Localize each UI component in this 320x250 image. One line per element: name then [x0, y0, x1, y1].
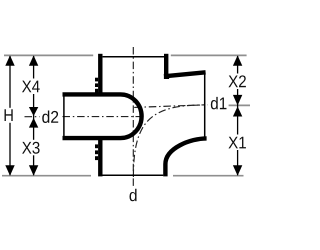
weld ridge lower 1	[95, 144, 98, 148]
weld ridge lower 3	[95, 156, 98, 160]
centerline stub left of d2 label (dash-dot)	[25, 116, 40, 118]
main pipe left wall upper section	[98, 54, 102, 95]
weld ridge upper 1	[95, 78, 98, 82]
extension line bottom-left (gray)	[2, 175, 91, 177]
centerline right branch axis d1 (dash-dot, tilted)	[134, 105, 207, 108]
weld ridge upper 3	[95, 89, 98, 93]
label X4	[21, 79, 41, 95]
top mouth face of main pipe (thin)	[103, 56, 164, 58]
arrow X3 top (up, at branch axis)	[29, 118, 38, 128]
label X3	[21, 140, 42, 156]
main pipe left wall lower section	[98, 137, 102, 177]
arrow X4 bottom (down, at branch axis)	[29, 107, 38, 116]
arrow X1 top (up, at right socket axis)	[233, 106, 242, 116]
dimension line H (vertical, far left)	[9, 56, 11, 175]
centerline left branch axis d2 (dash-dot)	[63, 116, 145, 118]
fitting outline: left branch pipe d2 with rounded inner end	[63, 94, 142, 138]
arrow H top (up)	[5, 55, 14, 65]
arrow X1 bottom (down)	[233, 165, 242, 175]
label d2	[42, 110, 58, 122]
label X2	[227, 74, 248, 90]
arrow X2 top (up)	[233, 55, 242, 65]
label d1	[211, 97, 227, 109]
weld ridge lower 2	[95, 150, 98, 154]
extension line of d1 axis to right edge (gray)	[229, 104, 250, 106]
label H	[2, 108, 16, 123]
label d	[130, 189, 137, 201]
arrow H bottom (down)	[5, 165, 14, 175]
centerline vertical main axis (dash-dot)	[132, 47, 134, 187]
arrow X4 top (up)	[29, 55, 38, 65]
swept outline right socket to bottom outlet	[165, 138, 206, 176]
dimension line X2/X1 (vertical, right)	[237, 56, 239, 175]
arrow X3 bottom (down)	[29, 165, 38, 175]
extension line top-left (gray)	[4, 54, 93, 56]
main pipe right wall upper section	[164, 54, 168, 79]
right socket top ledge (slightly sloped)	[164, 72, 206, 76]
left branch pipe mouth face (thin)	[63, 93, 65, 141]
weld ridge upper 2	[95, 83, 98, 87]
arrow X2 bottom (down, at right socket axis)	[233, 95, 242, 106]
label X1	[227, 135, 248, 151]
dimension line X4/X3 (vertical)	[33, 56, 35, 175]
flow curve centerline (dash-dot sweep from bottom outlet to right socket)	[133, 105, 204, 177]
right socket mouth face d1 (thin)	[204, 71, 206, 139]
extension line bottom-right (gray)	[173, 175, 244, 177]
bottom mouth face of outlet d (thin)	[101, 174, 164, 176]
extension line top-right (gray)	[171, 54, 247, 56]
right socket top ledge junction filler	[164, 74, 169, 79]
